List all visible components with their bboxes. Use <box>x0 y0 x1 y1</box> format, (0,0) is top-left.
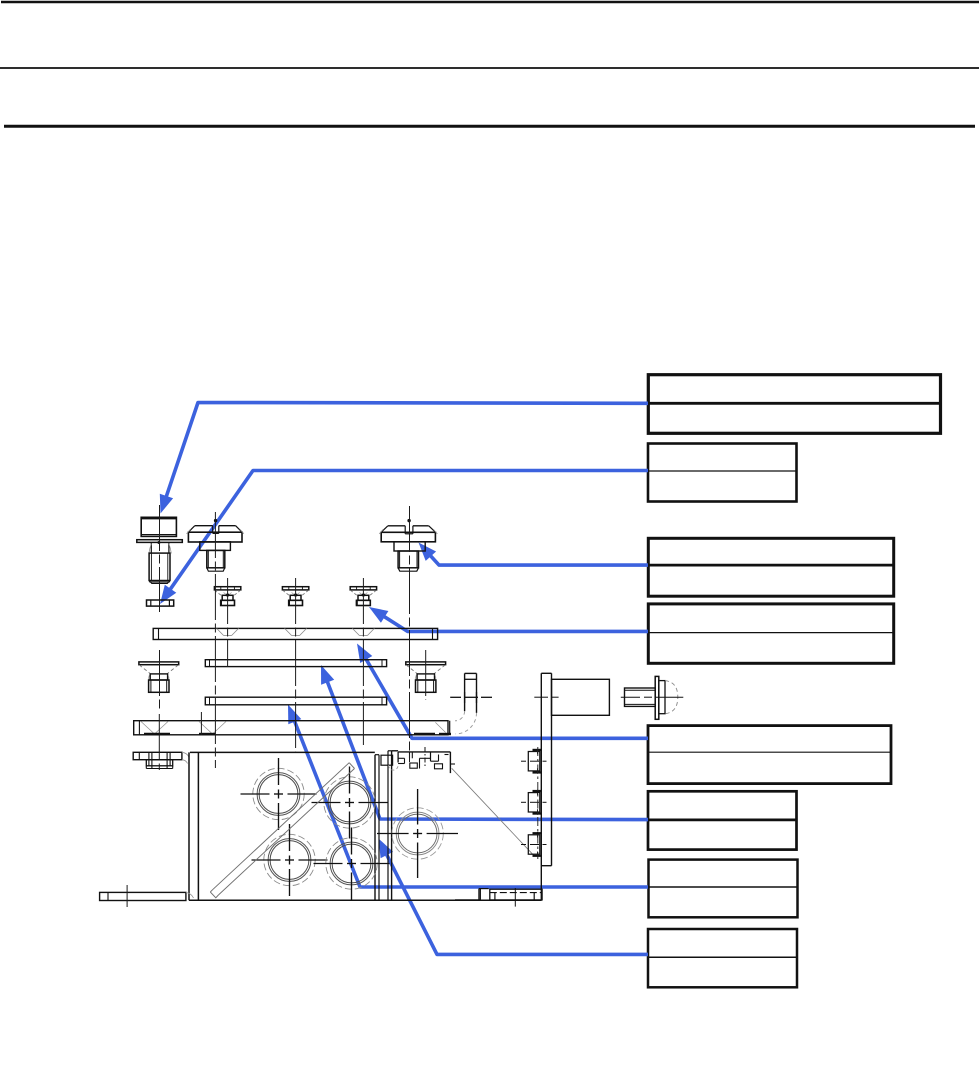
bar 1 <box>153 628 437 639</box>
callout box 7 <box>649 860 798 918</box>
thin diagonal line <box>452 768 535 856</box>
bent plate <box>134 721 451 735</box>
diagonal strip <box>210 763 354 898</box>
left clamp <box>133 752 189 768</box>
bottom left arm <box>100 892 194 900</box>
hole circle 2 <box>312 767 388 839</box>
leader arrow 8 <box>379 839 649 955</box>
clip 3 <box>521 832 547 857</box>
bottom bracket <box>455 888 542 907</box>
narrow plate <box>375 751 398 901</box>
flat washer <box>147 600 174 606</box>
clip 2 <box>521 790 547 815</box>
tall plate <box>541 673 551 899</box>
leader arrow 6 <box>321 665 648 820</box>
callout box 4 <box>648 604 893 663</box>
bar 3 <box>205 697 386 705</box>
countersunk washer 2 <box>282 587 308 606</box>
J hook bracket <box>450 673 492 734</box>
hex bolt <box>137 517 183 583</box>
header rule bottom <box>4 125 975 128</box>
header rule top <box>1 1 979 4</box>
countersunk washer 1 <box>214 587 240 606</box>
callout box 3 <box>648 538 893 596</box>
main box <box>189 751 542 901</box>
leader arrow 4 <box>369 607 648 631</box>
countersunk washer 3 <box>350 587 376 606</box>
leader arrow 2 <box>160 471 648 605</box>
hole circle 1 <box>241 758 317 830</box>
hole circle 4 <box>314 828 390 900</box>
leader arrow 5 <box>357 644 648 739</box>
callout box 2 <box>648 444 797 502</box>
spacer cylinder <box>534 679 609 715</box>
bar 2 <box>205 660 386 667</box>
hole circle 5 <box>377 789 458 878</box>
pan head screw 2 <box>379 519 437 571</box>
leader arrow 1 <box>160 403 648 514</box>
countersunk screw right <box>406 662 446 692</box>
callout box 8 <box>648 929 797 987</box>
callout box 6 <box>648 791 797 849</box>
hole circle 3 <box>252 824 328 896</box>
right clamp <box>398 747 455 773</box>
horizontal screw <box>621 676 684 719</box>
leader arrow 3 <box>419 543 649 566</box>
pan head screw 1 <box>187 519 244 571</box>
callout box 1 <box>648 375 940 434</box>
center lines <box>127 505 426 907</box>
callout box 5 <box>648 726 891 784</box>
clip 1 <box>521 749 547 774</box>
clip column center line <box>537 747 539 859</box>
header rule middle <box>0 67 979 69</box>
countersunk screw left <box>139 662 179 692</box>
leader arrow 7 <box>288 705 648 888</box>
